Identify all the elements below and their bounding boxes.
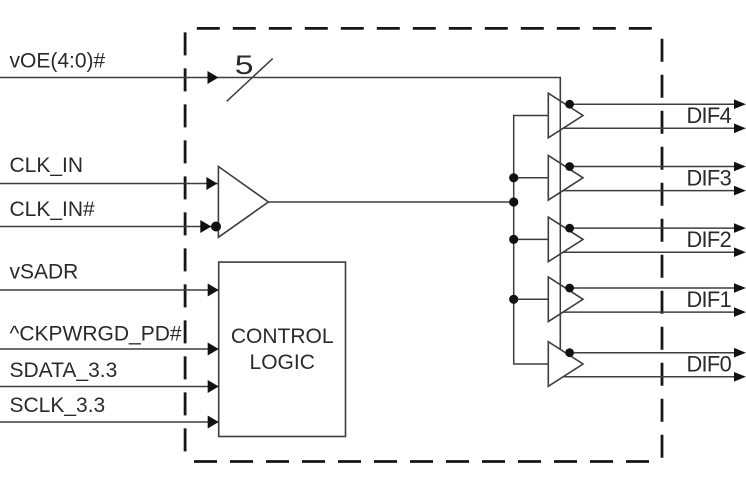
svg-text:DIF3: DIF3	[687, 165, 732, 190]
svg-text:CLK_IN: CLK_IN	[10, 154, 84, 177]
svg-text:vOE(4:0)#: vOE(4:0)#	[10, 49, 106, 72]
svg-text:DIF0: DIF0	[687, 352, 732, 377]
svg-text:DIF1: DIF1	[687, 287, 732, 312]
svg-text:LOGIC: LOGIC	[250, 351, 315, 374]
svg-text:SCLK_3.3: SCLK_3.3	[10, 394, 106, 417]
svg-text:DIF2: DIF2	[687, 227, 732, 252]
svg-text:^CKPWRGD_PD#: ^CKPWRGD_PD#	[10, 322, 182, 345]
svg-text:CLK_IN#: CLK_IN#	[10, 198, 96, 221]
svg-text:CONTROL: CONTROL	[231, 325, 334, 348]
svg-text:5: 5	[235, 50, 254, 80]
svg-text:SDATA_3.3: SDATA_3.3	[10, 359, 118, 382]
svg-text:DIF4: DIF4	[687, 103, 732, 128]
svg-text:vSADR: vSADR	[10, 260, 79, 283]
